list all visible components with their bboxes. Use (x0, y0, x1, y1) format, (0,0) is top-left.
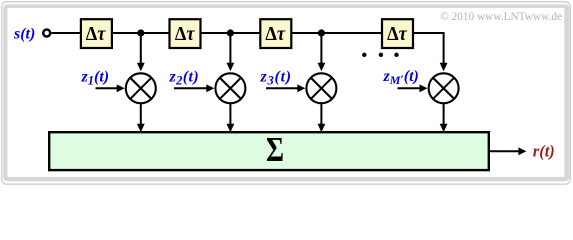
wire z2 arrow (174, 87, 207, 89)
svg-text:© 2010 www.LNTwww.de: © 2010 www.LNTwww.de (440, 11, 562, 23)
outer rounded border (2, 2, 571, 185)
svg-text:Δτ: Δτ (265, 23, 286, 45)
multiplier M2 (215, 73, 245, 103)
svg-text:s(t): s(t) (13, 26, 35, 43)
multiplier M3 (306, 73, 336, 103)
ellipsis dots (362, 53, 366, 57)
summation block (49, 130, 489, 170)
svg-text:Δτ: Δτ (86, 23, 107, 45)
input terminal (43, 30, 50, 37)
wire M2 down to sum (229, 103, 231, 124)
wire box3 to box4 (292, 32, 382, 34)
wire output arrow (490, 150, 519, 152)
inner panel shadow frame (3, 4, 569, 181)
wire box1 to box2 (113, 32, 170, 34)
wire input to box1 (52, 32, 82, 34)
wire junction2 down to multiplier 2 (229, 33, 231, 63)
svg-text:Σ: Σ (266, 130, 284, 169)
svg-text:r(t): r(t) (533, 142, 555, 161)
node junction 3 (318, 29, 325, 36)
delay box 3 (260, 19, 291, 48)
multiplier M1 (126, 73, 156, 103)
wire M3 down to sum (320, 103, 322, 124)
svg-text:Δτ: Δτ (387, 23, 408, 45)
wire box2 to box3 (201, 32, 260, 34)
wire M4 down to sum (443, 103, 445, 124)
wire M1 down to sum (140, 103, 142, 124)
wire z4 arrow (398, 87, 421, 89)
delay box 4 (382, 19, 413, 48)
wire z3 arrow (266, 87, 298, 89)
wire junction3 down to multiplier 3 (320, 33, 322, 63)
node junction 1 (137, 29, 144, 36)
wire z1 arrow (96, 87, 118, 89)
svg-text:z3(t): z3(t) (260, 68, 292, 87)
svg-text:Δτ: Δτ (175, 23, 196, 45)
multiplier M4 (429, 73, 459, 103)
delay box 2 (170, 19, 201, 48)
svg-text:z2(t): z2(t) (169, 68, 200, 87)
svg-text:zM′(t): zM′(t) (383, 68, 419, 87)
wire junction1 down to multiplier 1 (140, 33, 142, 63)
delay box 1 (81, 19, 112, 48)
wire box4 to corner and down to multiplier 4 (414, 33, 444, 63)
node junction 2 (227, 29, 234, 36)
svg-text:z1(t): z1(t) (81, 68, 110, 87)
